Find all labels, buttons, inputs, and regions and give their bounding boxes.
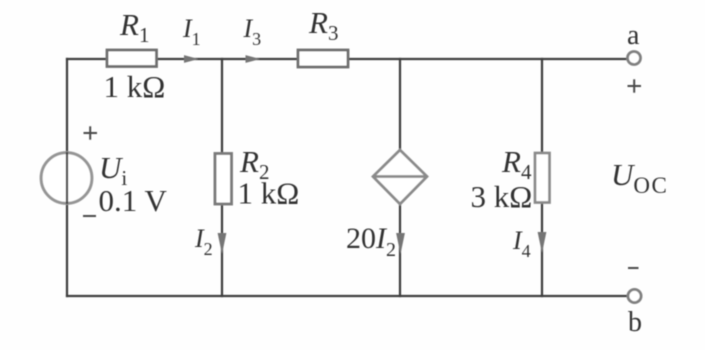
svg-text:UOC: UOC (611, 157, 668, 198)
svg-text:R4: R4 (501, 144, 532, 184)
svg-text:R3: R3 (308, 5, 338, 45)
svg-text:b: b (628, 307, 642, 338)
svg-text:1 kΩ: 1 kΩ (238, 176, 300, 211)
svg-text:1 kΩ: 1 kΩ (104, 69, 166, 104)
svg-text:a: a (627, 20, 640, 51)
svg-text:I3: I3 (243, 14, 262, 49)
svg-text:I2: I2 (194, 224, 213, 259)
svg-text:3 kΩ: 3 kΩ (471, 179, 533, 214)
svg-text:I1: I1 (182, 14, 201, 49)
svg-text:R1: R1 (119, 7, 149, 47)
svg-text:0.1 V: 0.1 V (99, 183, 168, 218)
svg-text:20I2: 20I2 (346, 222, 396, 261)
svg-text:I4: I4 (512, 226, 531, 261)
